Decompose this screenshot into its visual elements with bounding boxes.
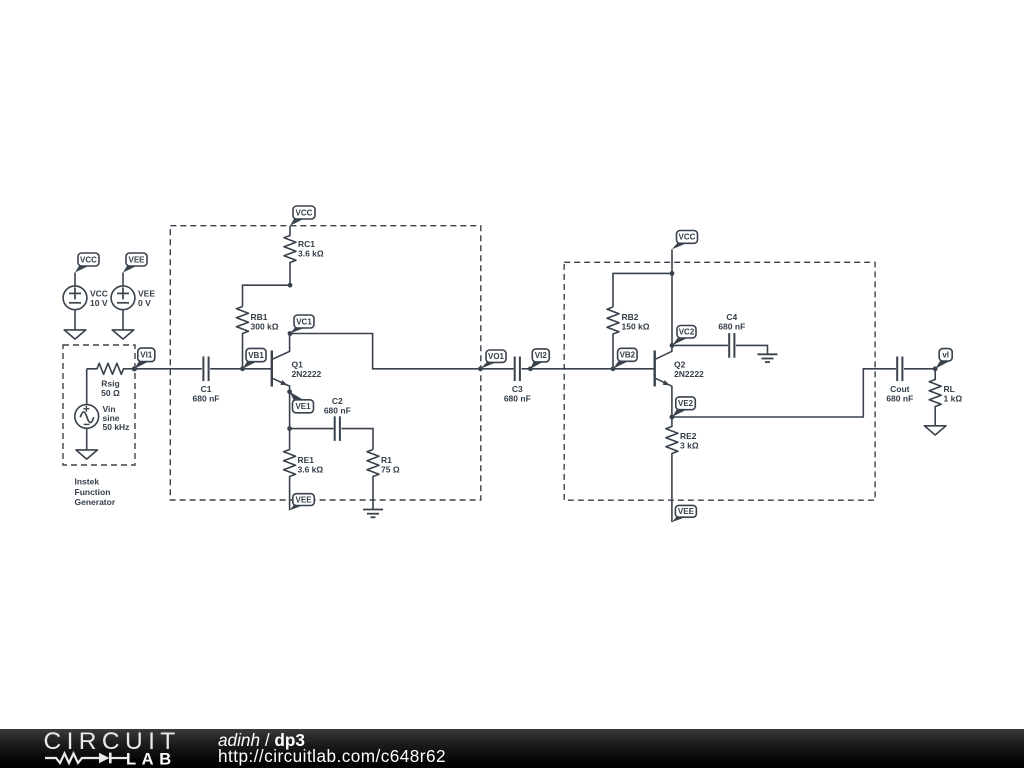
ground (C4)	[758, 354, 778, 362]
resistor RC1 3.6 kΩ	[284, 226, 324, 286]
ground (VCC source)	[64, 330, 86, 339]
node VE1 anchor	[287, 389, 292, 394]
capacitor C1 680 nF	[193, 357, 220, 404]
net flag VB2	[613, 348, 637, 369]
svg-text:VC2: VC2	[679, 328, 695, 337]
net flag VI1	[134, 348, 154, 369]
svg-text:Q2: Q2	[674, 360, 686, 370]
net flag VC2	[672, 326, 696, 346]
svg-text:VEE: VEE	[678, 507, 695, 516]
svg-text:RE2: RE2	[680, 431, 697, 441]
net flag VCC	[75, 253, 99, 273]
svg-text:RL: RL	[944, 384, 955, 394]
wire C3 to Q2 base	[522, 368, 655, 370]
node vI junction	[933, 366, 938, 371]
svg-text:Cout: Cout	[890, 384, 910, 394]
junction VE2 node	[670, 415, 675, 420]
resistor RB1 300 kΩ	[237, 307, 279, 369]
svg-text:VB1: VB1	[248, 351, 264, 360]
svg-text:50 Ω: 50 Ω	[101, 388, 120, 398]
capacitor C3 680 nF	[504, 357, 531, 404]
node VB1 junction	[240, 366, 245, 371]
svg-text:VI2: VI2	[535, 351, 548, 360]
net flag VE1	[290, 392, 314, 413]
footer url	[218, 746, 446, 767]
wire VO1 to C3	[480, 368, 513, 370]
ground (R1)	[363, 510, 383, 518]
net flag VO1	[480, 350, 506, 369]
svg-text:RB1: RB1	[251, 312, 268, 322]
svg-text:Function: Function	[75, 487, 111, 497]
svg-text:RE1: RE1	[298, 455, 315, 465]
resistor RE2 3 kΩ	[666, 417, 699, 522]
svg-text:Generator: Generator	[75, 497, 116, 507]
net flag VEE (stage 2)	[672, 505, 697, 522]
node VO1 junction	[478, 366, 483, 371]
node VC1 junction	[288, 331, 293, 336]
net flag VB1	[243, 348, 267, 368]
capacitor C2 680 nF	[324, 396, 351, 441]
svg-text:0 V: 0 V	[138, 298, 151, 308]
svg-text:VEE: VEE	[296, 495, 313, 504]
svg-text:vI: vI	[942, 351, 949, 360]
node VC2 junction	[670, 343, 675, 348]
svg-text:2N2222: 2N2222	[292, 369, 322, 379]
ground (Vin source)	[76, 450, 98, 459]
capacitor Cout 680 nF	[886, 357, 913, 404]
svg-text:1 kΩ: 1 kΩ	[944, 394, 963, 404]
svg-text:3.6 kΩ: 3.6 kΩ	[298, 249, 324, 259]
svg-text:680 nF: 680 nF	[504, 394, 531, 404]
resistor R1 75 Ω	[367, 450, 400, 510]
svg-text:300 kΩ: 300 kΩ	[251, 322, 279, 332]
svg-text:Instek: Instek	[75, 477, 100, 487]
transistor Q2 2N2222	[655, 345, 704, 417]
svg-text:VE2: VE2	[678, 399, 694, 408]
wire VCC to Q2 collector	[671, 249, 673, 345]
net flag VCC (stage 2)	[672, 231, 698, 250]
sine voltage source Vin (50 kHz)	[75, 369, 130, 450]
junction RC1/RB1 node	[288, 283, 293, 288]
wire RC1 node to RB1	[243, 285, 291, 306]
net flag VEE (stage 1)	[290, 494, 315, 511]
wire Cout to vI	[904, 368, 935, 370]
svg-text:3.6 kΩ: 3.6 kΩ	[298, 465, 324, 475]
resistor RL 1 kΩ	[929, 369, 962, 426]
wire VI1 to C1	[134, 368, 201, 370]
svg-text:680 nF: 680 nF	[193, 394, 220, 404]
wire emitter node to C2	[290, 428, 334, 430]
resistor RB2 150 kΩ	[607, 307, 650, 369]
net flag vI	[935, 349, 952, 369]
svg-text:R1: R1	[381, 455, 392, 465]
net flag VEE	[123, 253, 147, 273]
wire VC2 to C4	[672, 344, 728, 346]
voltage source VCC (10 V)	[63, 273, 108, 330]
dashed enclosure: stage 1	[170, 226, 481, 500]
dashed enclosure: stage 2	[564, 262, 875, 500]
svg-text:Q1: Q1	[292, 360, 304, 370]
wire C2 to R1	[342, 429, 374, 450]
node VI2 junction	[528, 366, 533, 371]
svg-text:VO1: VO1	[488, 352, 505, 361]
wire Q1 emitter down	[289, 392, 291, 429]
svg-text:C3: C3	[512, 384, 523, 394]
svg-text:680 nF: 680 nF	[718, 322, 745, 332]
wire C4 to ground	[736, 345, 768, 354]
svg-text:150 kΩ: 150 kΩ	[622, 322, 650, 332]
resistor RE1 3.6 kΩ	[284, 429, 324, 511]
svg-text:Rsig: Rsig	[101, 379, 119, 389]
svg-text:680 nF: 680 nF	[886, 394, 913, 404]
wire C1 to Q1 base	[210, 368, 272, 370]
resistor Rsig 50 Ω	[87, 363, 135, 398]
svg-text:C2: C2	[332, 396, 343, 406]
net flag VC1	[290, 315, 314, 334]
svg-text:VI1: VI1	[140, 351, 153, 360]
svg-text:C1: C1	[201, 384, 212, 394]
capacitor C4 680 nF	[718, 312, 745, 358]
svg-text:VEE: VEE	[138, 288, 155, 298]
transistor Q1 2N2222	[272, 334, 322, 392]
footer title: adinh / dp3	[218, 730, 305, 751]
node VB2 junction	[611, 366, 616, 371]
svg-text:680 nF: 680 nF	[324, 406, 351, 416]
ground (RL)	[924, 426, 946, 435]
net flag VI2	[530, 349, 549, 369]
svg-text:50 kHz: 50 kHz	[103, 422, 130, 432]
svg-text:RB2: RB2	[622, 312, 639, 322]
net flag VE2	[672, 397, 695, 417]
svg-text:C4: C4	[726, 312, 737, 322]
svg-text:RC1: RC1	[298, 239, 315, 249]
svg-text:3 kΩ: 3 kΩ	[680, 441, 699, 451]
svg-text:LAB: LAB	[126, 751, 177, 769]
CircuitLab logo wordmark CIRCUIT	[44, 728, 181, 756]
svg-text:2N2222: 2N2222	[674, 369, 704, 379]
svg-text:VB2: VB2	[620, 351, 636, 360]
CircuitLab logo resistor-diode glyph and LAB	[35, 727, 235, 772]
svg-text:VEE: VEE	[128, 255, 145, 264]
svg-text:VCC: VCC	[90, 288, 108, 298]
wire node to RB2	[613, 273, 672, 307]
dashed enclosure: Instek function generator	[63, 345, 135, 507]
wire Q1 collector to VO1	[290, 334, 480, 369]
svg-text:VCC: VCC	[296, 208, 313, 217]
ground (VEE source)	[112, 330, 134, 339]
junction VCC/RB2 node	[670, 271, 675, 276]
net flag VCC (stage 1)	[290, 206, 315, 226]
svg-text:10 V: 10 V	[90, 298, 108, 308]
svg-text:VCC: VCC	[80, 255, 97, 264]
svg-text:VCC: VCC	[679, 233, 696, 242]
svg-text:VE1: VE1	[295, 402, 311, 411]
wire VE2 to Cout	[672, 369, 896, 417]
svg-text:75 Ω: 75 Ω	[381, 465, 400, 475]
junction emitter/C2/RE1	[287, 426, 292, 431]
node VI1 junction	[132, 366, 137, 371]
voltage source VEE (0 V)	[111, 273, 155, 330]
svg-text:VC1: VC1	[296, 317, 312, 326]
